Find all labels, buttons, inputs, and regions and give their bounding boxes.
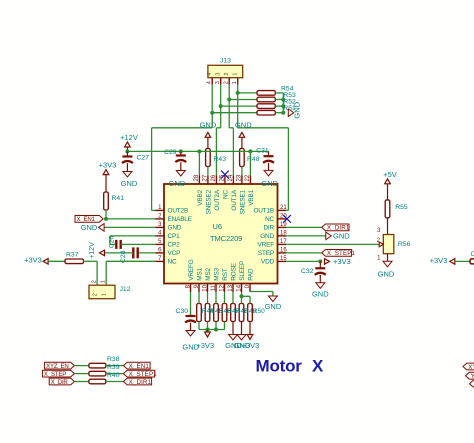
svg-text:14: 14 xyxy=(236,284,242,291)
svg-text:VCP: VCP xyxy=(168,250,181,257)
svg-text:NC: NC xyxy=(222,189,229,198)
svg-text:VREFG: VREFG xyxy=(188,259,195,280)
svg-text:Motor: Motor xyxy=(256,356,303,375)
svg-text:R48: R48 xyxy=(247,156,260,163)
svg-text:SLEEP: SLEEP xyxy=(239,261,246,281)
svg-text:3: 3 xyxy=(215,81,221,84)
svg-text:X_STEP1: X_STEP1 xyxy=(129,371,158,378)
svg-text:3: 3 xyxy=(216,73,222,76)
svg-text:13: 13 xyxy=(228,284,234,291)
svg-text:C27: C27 xyxy=(137,154,150,161)
svg-text:4: 4 xyxy=(207,81,213,84)
svg-text:VBB2: VBB2 xyxy=(197,189,204,205)
svg-text:X_DIR1: X_DIR1 xyxy=(327,225,350,232)
svg-text:+12V: +12V xyxy=(120,133,138,142)
svg-text:CP2: CP2 xyxy=(168,242,181,249)
svg-text:2: 2 xyxy=(224,73,230,76)
svg-text:2: 2 xyxy=(224,81,230,84)
svg-text:OUT1A: OUT1A xyxy=(231,189,238,210)
svg-text:4: 4 xyxy=(207,73,213,76)
svg-text:MS2: MS2 xyxy=(205,267,212,280)
svg-text:MS1: MS1 xyxy=(196,267,203,280)
svg-text:+3V3: +3V3 xyxy=(333,257,351,266)
svg-text:C30: C30 xyxy=(176,308,189,315)
svg-text:11: 11 xyxy=(211,284,217,291)
svg-text:+12V: +12V xyxy=(89,242,96,259)
svg-text:SNESE2: SNESE2 xyxy=(205,189,212,214)
svg-text:R40: R40 xyxy=(107,372,120,379)
svg-text:R37: R37 xyxy=(66,251,79,258)
svg-text:XYZ_EN: XYZ_EN xyxy=(46,363,69,370)
svg-text:GND: GND xyxy=(81,223,98,232)
svg-text:CP1: CP1 xyxy=(168,233,181,240)
svg-text:C29: C29 xyxy=(164,149,177,156)
svg-text:NC: NC xyxy=(168,259,177,266)
svg-text:X_DIR1: X_DIR1 xyxy=(129,379,152,386)
svg-text:1: 1 xyxy=(233,73,239,76)
svg-text:+3V3: +3V3 xyxy=(24,256,42,265)
svg-text:XY_: XY_ xyxy=(468,364,474,371)
svg-text:GND: GND xyxy=(265,302,282,311)
svg-text:12: 12 xyxy=(219,284,225,291)
svg-text:VDD: VDD xyxy=(261,259,275,266)
svg-text:X_DIR: X_DIR xyxy=(51,379,69,386)
svg-text:GND: GND xyxy=(261,179,278,188)
svg-text:GND: GND xyxy=(235,120,252,129)
svg-text:ENABLE: ENABLE xyxy=(168,216,192,223)
svg-text:1: 1 xyxy=(232,81,238,84)
svg-text:+3V3: +3V3 xyxy=(196,341,214,350)
svg-text:R43: R43 xyxy=(214,156,227,163)
svg-text:X_STEP: X_STEP xyxy=(44,371,66,378)
svg-text:TMC2209: TMC2209 xyxy=(210,234,242,243)
svg-text:OUT2B: OUT2B xyxy=(168,208,189,215)
svg-text:R55: R55 xyxy=(395,204,408,211)
svg-text:1: 1 xyxy=(102,293,108,296)
svg-text:GND: GND xyxy=(333,232,350,241)
svg-text:R38: R38 xyxy=(107,356,120,363)
svg-text:+3V3: +3V3 xyxy=(242,341,260,350)
svg-text:ROSE: ROSE xyxy=(230,263,237,281)
svg-text:DIR: DIR xyxy=(263,225,274,232)
svg-text:1: 1 xyxy=(101,280,107,283)
svg-text:+3V3: +3V3 xyxy=(430,256,448,265)
svg-text:SNESE1: SNESE1 xyxy=(239,189,246,214)
svg-text:OUT1B: OUT1B xyxy=(253,208,274,215)
svg-text:C26: C26 xyxy=(109,236,116,249)
svg-text:RST: RST xyxy=(222,268,229,281)
svg-text:PAD: PAD xyxy=(247,268,254,281)
svg-text:10: 10 xyxy=(202,284,208,291)
svg-text:STEP: STEP xyxy=(258,250,274,257)
svg-text:C31: C31 xyxy=(256,148,269,155)
svg-text:2: 2 xyxy=(93,293,99,296)
svg-text:C32: C32 xyxy=(301,268,314,275)
svg-text:GND: GND xyxy=(378,270,395,279)
svg-text:X_EN1: X_EN1 xyxy=(129,363,150,370)
svg-text:R51: R51 xyxy=(283,105,296,112)
svg-text:NC: NC xyxy=(265,216,274,223)
svg-text:R56: R56 xyxy=(398,241,411,248)
svg-text:R39: R39 xyxy=(107,364,120,371)
svg-text:GND: GND xyxy=(200,120,217,129)
svg-text:OUT2A: OUT2A xyxy=(214,189,221,210)
svg-text:GND: GND xyxy=(168,225,182,232)
svg-text:+5V: +5V xyxy=(383,170,397,179)
svg-text:X: X xyxy=(312,356,324,375)
svg-text:J12: J12 xyxy=(120,286,131,293)
svg-text:U6: U6 xyxy=(213,222,223,231)
svg-text:+3V3: +3V3 xyxy=(99,161,117,170)
svg-text:J13: J13 xyxy=(220,58,231,65)
svg-text:GND: GND xyxy=(260,233,274,240)
svg-text:X_STEP1: X_STEP1 xyxy=(327,250,356,257)
svg-text:MS3: MS3 xyxy=(213,267,220,280)
svg-text:R50: R50 xyxy=(253,308,265,315)
svg-text:C: C xyxy=(471,251,474,258)
svg-text:VBB1: VBB1 xyxy=(248,189,255,205)
svg-text:GND: GND xyxy=(121,179,138,188)
svg-text:GND: GND xyxy=(169,179,186,188)
svg-text:R41: R41 xyxy=(112,195,125,202)
svg-text:VREF: VREF xyxy=(258,242,275,249)
svg-text:GND: GND xyxy=(312,289,329,298)
svg-text:2: 2 xyxy=(92,280,98,283)
svg-text:X_EN1: X_EN1 xyxy=(77,216,96,223)
